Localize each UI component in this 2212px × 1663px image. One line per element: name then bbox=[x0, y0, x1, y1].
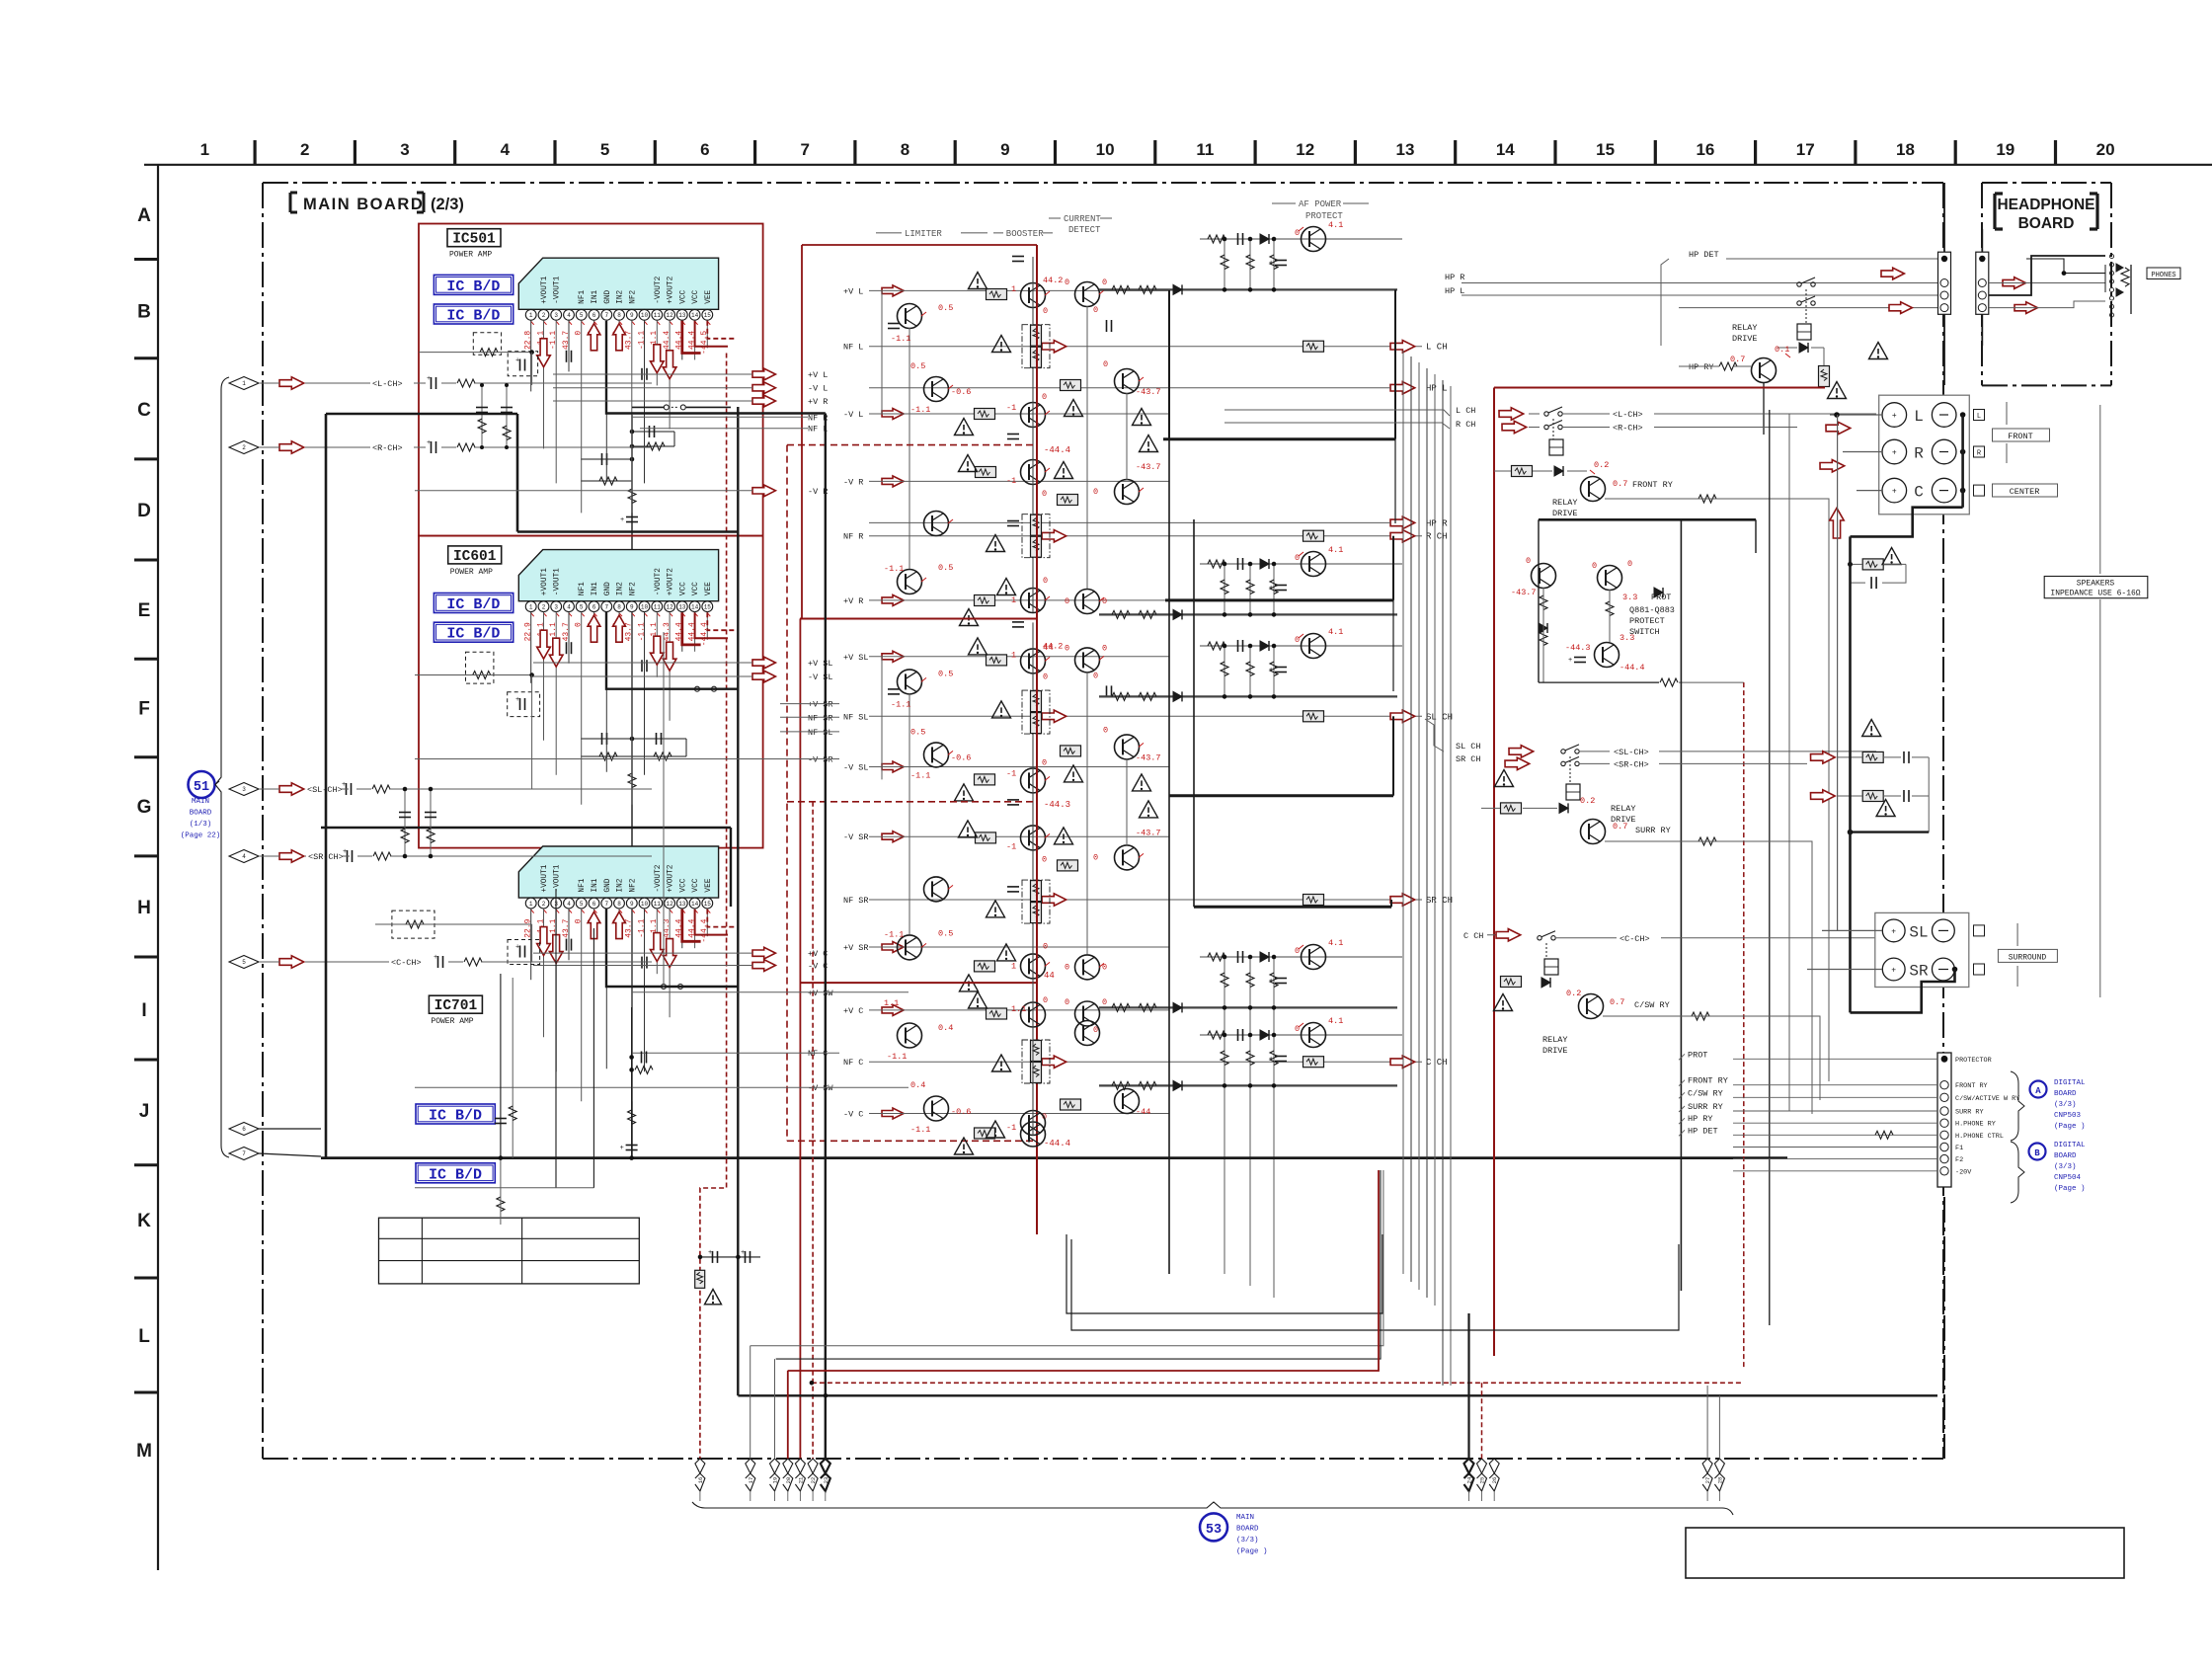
svg-text:IN2: IN2 bbox=[617, 582, 625, 595]
svg-text:7: 7 bbox=[800, 140, 809, 159]
svg-text:(3/3): (3/3) bbox=[2054, 1163, 2077, 1171]
svg-text:13: 13 bbox=[678, 603, 686, 610]
svg-text:F1: F1 bbox=[1955, 1145, 1963, 1152]
svg-text:13: 13 bbox=[678, 901, 686, 908]
svg-text:12: 12 bbox=[666, 603, 673, 610]
svg-text:+VOUT2: +VOUT2 bbox=[668, 864, 675, 892]
svg-text:J: J bbox=[139, 1101, 150, 1122]
svg-text:+: + bbox=[434, 954, 437, 962]
svg-text:L CH: L CH bbox=[1456, 406, 1475, 416]
svg-text:VCC: VCC bbox=[679, 878, 687, 892]
svg-text:<C-CH>: <C-CH> bbox=[391, 958, 422, 968]
svg-text:1: 1 bbox=[529, 312, 533, 319]
svg-text:0: 0 bbox=[1295, 228, 1300, 238]
svg-text:+VOUT2: +VOUT2 bbox=[668, 276, 675, 303]
svg-text:3.3: 3.3 bbox=[1622, 593, 1637, 602]
svg-text:-V SR: -V SR bbox=[843, 832, 869, 842]
svg-text:4: 4 bbox=[567, 901, 571, 908]
svg-text:4.1: 4.1 bbox=[1328, 220, 1343, 230]
svg-text:-V SW: -V SW bbox=[808, 1083, 833, 1093]
svg-text:INPEDANCE USE 6-16Ω: INPEDANCE USE 6-16Ω bbox=[2050, 590, 2140, 598]
svg-text:+: + bbox=[1269, 260, 1273, 268]
svg-text:+: + bbox=[708, 1249, 712, 1257]
svg-text:+: + bbox=[1269, 1056, 1273, 1064]
svg-text:0: 0 bbox=[1093, 305, 1098, 315]
svg-text:0.7: 0.7 bbox=[1730, 355, 1745, 364]
svg-text:+: + bbox=[1891, 927, 1896, 936]
svg-text:IN1: IN1 bbox=[592, 878, 599, 892]
svg-text:3: 3 bbox=[554, 312, 558, 319]
svg-text:+: + bbox=[1892, 449, 1897, 458]
svg-text:+V SL: +V SL bbox=[808, 659, 833, 669]
svg-text:PROTECTOR: PROTECTOR bbox=[1955, 1057, 1992, 1065]
svg-text:VCC: VCC bbox=[679, 289, 687, 303]
svg-text:44: 44 bbox=[1043, 643, 1054, 653]
svg-text:0: 0 bbox=[1065, 962, 1069, 972]
svg-text:+: + bbox=[1892, 412, 1897, 421]
svg-text:-44.4: -44.4 bbox=[1044, 445, 1070, 455]
svg-text:12: 12 bbox=[666, 312, 673, 319]
svg-text:SURR RY: SURR RY bbox=[1955, 1109, 1984, 1117]
svg-text:0: 0 bbox=[1103, 725, 1108, 735]
svg-text:+: + bbox=[1269, 978, 1273, 986]
svg-text:FRONT RY: FRONT RY bbox=[1632, 480, 1673, 490]
svg-text:FRONT: FRONT bbox=[2008, 432, 2033, 441]
svg-text:-1: -1 bbox=[1006, 768, 1016, 778]
svg-text:+: + bbox=[343, 848, 347, 856]
svg-text:17: 17 bbox=[1796, 140, 1815, 159]
svg-text:11: 11 bbox=[1196, 140, 1214, 159]
svg-text:DETECT: DETECT bbox=[1068, 225, 1101, 235]
svg-text:16: 16 bbox=[697, 1477, 704, 1484]
svg-text:0: 0 bbox=[1043, 941, 1048, 951]
svg-text:0.2: 0.2 bbox=[1594, 460, 1609, 470]
svg-text:(Page ): (Page ) bbox=[2054, 1185, 2086, 1193]
svg-text:GND: GND bbox=[604, 878, 612, 892]
svg-text:3: 3 bbox=[400, 140, 409, 159]
svg-text:3: 3 bbox=[242, 786, 246, 793]
svg-text:0: 0 bbox=[1295, 553, 1300, 563]
svg-text:PROT: PROT bbox=[1688, 1050, 1707, 1060]
svg-text:BOARD: BOARD bbox=[2054, 1090, 2077, 1098]
svg-text:I: I bbox=[141, 1000, 146, 1021]
svg-text:2: 2 bbox=[542, 901, 546, 908]
svg-text:-43.7: -43.7 bbox=[1136, 752, 1161, 762]
svg-text:0: 0 bbox=[1043, 995, 1048, 1005]
svg-text:FRONT RY: FRONT RY bbox=[1955, 1082, 1988, 1090]
svg-text:MAIN: MAIN bbox=[1236, 1514, 1254, 1522]
svg-text:21: 21 bbox=[797, 1476, 804, 1483]
svg-text:1: 1 bbox=[200, 140, 209, 159]
svg-text:22: 22 bbox=[810, 1477, 817, 1484]
svg-text:1: 1 bbox=[1011, 961, 1016, 971]
svg-text:<C-CH>: <C-CH> bbox=[1619, 934, 1650, 944]
svg-text:IC B/D: IC B/D bbox=[446, 308, 500, 325]
svg-text:4.1: 4.1 bbox=[1328, 545, 1343, 555]
svg-text:51: 51 bbox=[194, 780, 209, 795]
svg-text:4.1: 4.1 bbox=[1328, 627, 1343, 637]
svg-text:<R-CH>: <R-CH> bbox=[1613, 424, 1643, 434]
svg-text:DRIVE: DRIVE bbox=[1552, 509, 1578, 518]
svg-text:GND: GND bbox=[604, 582, 612, 595]
svg-text:B: B bbox=[137, 302, 151, 323]
svg-text:-V L: -V L bbox=[843, 410, 863, 420]
svg-text:-0.6: -0.6 bbox=[951, 1107, 971, 1117]
svg-text:9: 9 bbox=[1000, 140, 1009, 159]
svg-text:9: 9 bbox=[630, 312, 634, 319]
svg-text:0: 0 bbox=[1093, 852, 1098, 862]
svg-text:NF2: NF2 bbox=[629, 289, 637, 303]
svg-text:0: 0 bbox=[1526, 556, 1531, 566]
svg-text:0: 0 bbox=[1102, 997, 1107, 1007]
svg-text:MAIN BOARD: MAIN BOARD bbox=[303, 196, 424, 213]
svg-text:7: 7 bbox=[604, 312, 608, 319]
svg-text:0: 0 bbox=[1295, 1024, 1300, 1034]
svg-text:0.2: 0.2 bbox=[1566, 989, 1581, 998]
svg-text:-1: -1 bbox=[1006, 476, 1016, 486]
svg-text:+: + bbox=[1891, 967, 1896, 976]
svg-text:-VOUT1: -VOUT1 bbox=[554, 276, 562, 303]
svg-text:0: 0 bbox=[1065, 277, 1069, 287]
svg-text:FRONT RY: FRONT RY bbox=[1688, 1076, 1728, 1086]
svg-text:0: 0 bbox=[1592, 561, 1597, 571]
svg-text:11: 11 bbox=[654, 312, 662, 319]
svg-text:7: 7 bbox=[604, 603, 608, 610]
svg-text:(Page ): (Page ) bbox=[2054, 1123, 2086, 1131]
svg-text:-1.1: -1.1 bbox=[891, 334, 910, 344]
svg-text:+: + bbox=[1568, 657, 1572, 665]
svg-text:SPEAKERS: SPEAKERS bbox=[2077, 580, 2115, 589]
svg-text:23: 23 bbox=[823, 1477, 829, 1484]
svg-text:0: 0 bbox=[1042, 392, 1047, 402]
svg-text:HP DET: HP DET bbox=[1689, 250, 1719, 260]
svg-text:NF2: NF2 bbox=[629, 878, 637, 892]
svg-text:HP L: HP L bbox=[1426, 384, 1448, 394]
svg-text:IC B/D: IC B/D bbox=[446, 596, 500, 613]
svg-text:-1.1: -1.1 bbox=[910, 1125, 930, 1135]
svg-text:POWER AMP: POWER AMP bbox=[450, 568, 493, 577]
svg-text:F2: F2 bbox=[1955, 1156, 1963, 1164]
svg-text:8: 8 bbox=[901, 140, 909, 159]
svg-text:0.5: 0.5 bbox=[910, 727, 925, 737]
svg-text:4: 4 bbox=[242, 853, 246, 860]
svg-text:C/SW RY: C/SW RY bbox=[1634, 1000, 1670, 1010]
svg-text:1: 1 bbox=[1011, 284, 1016, 294]
svg-text:4.1: 4.1 bbox=[1328, 1016, 1343, 1026]
svg-text:0.4: 0.4 bbox=[938, 1023, 953, 1033]
svg-text:VCC: VCC bbox=[692, 582, 700, 595]
svg-text:24: 24 bbox=[1466, 1476, 1473, 1483]
svg-text:IN2: IN2 bbox=[617, 289, 625, 303]
svg-text:-1.1: -1.1 bbox=[884, 929, 904, 939]
svg-text:7: 7 bbox=[604, 901, 608, 908]
svg-text:F: F bbox=[138, 699, 150, 720]
svg-text:0.4: 0.4 bbox=[910, 1080, 925, 1090]
svg-text:+: + bbox=[515, 696, 519, 704]
svg-text:CENTER: CENTER bbox=[2010, 487, 2040, 497]
svg-text:SL CH: SL CH bbox=[1426, 712, 1453, 722]
svg-text:R CH: R CH bbox=[1426, 532, 1448, 542]
svg-text:IC B/D: IC B/D bbox=[429, 1108, 482, 1125]
svg-text:(1/3): (1/3) bbox=[190, 821, 212, 829]
svg-text:C/SW RY: C/SW RY bbox=[1688, 1088, 1723, 1098]
svg-text:5: 5 bbox=[242, 959, 246, 966]
svg-text:-VOUT2: -VOUT2 bbox=[655, 276, 663, 303]
svg-text:DRIVE: DRIVE bbox=[1542, 1046, 1568, 1056]
svg-text:2: 2 bbox=[242, 444, 246, 451]
svg-text:PHONES: PHONES bbox=[2151, 272, 2175, 279]
svg-text:L: L bbox=[1914, 408, 1924, 426]
svg-text:RELAY: RELAY bbox=[1611, 804, 1636, 814]
svg-text:10: 10 bbox=[641, 901, 649, 908]
svg-text:NF SL: NF SL bbox=[843, 712, 869, 722]
svg-text:DRIVE: DRIVE bbox=[1732, 334, 1758, 344]
svg-text:-1.1: -1.1 bbox=[887, 1052, 907, 1062]
svg-text:6: 6 bbox=[242, 1126, 246, 1133]
svg-text:VCC: VCC bbox=[692, 289, 700, 303]
svg-text:-1: -1 bbox=[1006, 403, 1016, 413]
svg-text:8: 8 bbox=[617, 603, 621, 610]
svg-text:0.1: 0.1 bbox=[1775, 345, 1789, 355]
svg-text:NF1: NF1 bbox=[579, 582, 587, 595]
svg-text:CNP503: CNP503 bbox=[2054, 1112, 2082, 1120]
svg-text:-V R: -V R bbox=[843, 477, 863, 487]
svg-text:CURRENT: CURRENT bbox=[1064, 214, 1101, 224]
svg-text:A: A bbox=[137, 205, 151, 226]
svg-text:DIGITAL: DIGITAL bbox=[2054, 1079, 2086, 1087]
svg-text:1: 1 bbox=[529, 901, 533, 908]
svg-text:1: 1 bbox=[242, 380, 246, 387]
svg-text:13: 13 bbox=[678, 312, 686, 319]
svg-text:6: 6 bbox=[700, 140, 709, 159]
svg-text:NF R: NF R bbox=[843, 532, 863, 542]
svg-text:0: 0 bbox=[1093, 487, 1098, 497]
svg-text:L: L bbox=[138, 1326, 150, 1347]
svg-text:G: G bbox=[137, 797, 152, 818]
svg-text:26: 26 bbox=[1491, 1477, 1498, 1484]
svg-text:0: 0 bbox=[1065, 997, 1069, 1007]
svg-text:2: 2 bbox=[300, 140, 309, 159]
svg-text:6: 6 bbox=[592, 312, 596, 319]
svg-text:<R-CH>: <R-CH> bbox=[372, 443, 403, 453]
svg-text:NF SR: NF SR bbox=[843, 896, 869, 906]
svg-text:C CH: C CH bbox=[1463, 931, 1483, 941]
svg-text:MAIN: MAIN bbox=[192, 798, 209, 806]
svg-text:2: 2 bbox=[542, 312, 546, 319]
svg-text:H.PHONE RY: H.PHONE RY bbox=[1955, 1121, 1996, 1129]
svg-text:+V SR: +V SR bbox=[843, 943, 869, 953]
svg-text:VEE: VEE bbox=[705, 582, 713, 595]
svg-text:<L-CH>: <L-CH> bbox=[372, 379, 403, 389]
svg-text:0: 0 bbox=[1295, 946, 1300, 956]
svg-text:11: 11 bbox=[654, 901, 662, 908]
svg-text:12: 12 bbox=[666, 901, 673, 908]
svg-text:H.PHONE CTRL: H.PHONE CTRL bbox=[1955, 1133, 2004, 1141]
svg-text:VEE: VEE bbox=[705, 878, 713, 892]
svg-text:+VOUT1: +VOUT1 bbox=[541, 276, 549, 303]
svg-text:IC601: IC601 bbox=[453, 549, 497, 565]
svg-text:RELAY: RELAY bbox=[1732, 323, 1758, 333]
svg-text:DRIVE: DRIVE bbox=[1611, 815, 1636, 825]
svg-text:0.5: 0.5 bbox=[938, 669, 953, 678]
svg-text:+: + bbox=[515, 944, 519, 952]
svg-text:+: + bbox=[620, 1145, 624, 1152]
svg-text:0: 0 bbox=[1065, 596, 1069, 606]
svg-text:0.7: 0.7 bbox=[1613, 479, 1627, 489]
svg-text:VCC: VCC bbox=[679, 582, 687, 595]
svg-text:0.2: 0.2 bbox=[1580, 796, 1595, 806]
svg-text:10: 10 bbox=[641, 603, 649, 610]
svg-text:15: 15 bbox=[1596, 140, 1615, 159]
svg-text:4: 4 bbox=[567, 312, 571, 319]
svg-text:+VOUT1: +VOUT1 bbox=[541, 568, 549, 595]
svg-text:44: 44 bbox=[1044, 971, 1055, 981]
svg-text:5: 5 bbox=[600, 140, 609, 159]
svg-text:NF2: NF2 bbox=[629, 582, 637, 595]
svg-text:NF L: NF L bbox=[843, 343, 863, 353]
svg-text:16: 16 bbox=[1696, 140, 1714, 159]
svg-text:BOARD: BOARD bbox=[2054, 1152, 2077, 1160]
svg-text:1: 1 bbox=[1011, 650, 1016, 660]
svg-text:0: 0 bbox=[1042, 854, 1047, 864]
svg-text:D: D bbox=[137, 501, 151, 521]
svg-text:-43.7: -43.7 bbox=[1136, 462, 1161, 472]
svg-text:-V SR: -V SR bbox=[808, 755, 833, 765]
svg-text:SURR RY: SURR RY bbox=[1688, 1102, 1723, 1112]
svg-text:NF1: NF1 bbox=[579, 878, 587, 892]
svg-text:-44: -44 bbox=[1136, 1107, 1150, 1117]
svg-text:19: 19 bbox=[1996, 140, 2014, 159]
svg-text:7: 7 bbox=[242, 1150, 246, 1157]
svg-text:GND: GND bbox=[604, 289, 612, 303]
svg-text:-44.3: -44.3 bbox=[1044, 800, 1070, 810]
svg-text:Q881-Q883: Q881-Q883 bbox=[1629, 605, 1675, 615]
svg-text:0: 0 bbox=[1042, 757, 1047, 767]
svg-text:13: 13 bbox=[1396, 140, 1415, 159]
svg-text:+V L: +V L bbox=[843, 286, 863, 296]
svg-text:2: 2 bbox=[542, 603, 546, 610]
svg-text:AF POWER: AF POWER bbox=[1299, 199, 1342, 209]
svg-text:6: 6 bbox=[592, 603, 596, 610]
svg-text:0: 0 bbox=[1627, 559, 1632, 569]
svg-text:-44.4: -44.4 bbox=[1619, 663, 1645, 673]
svg-text:1: 1 bbox=[1011, 595, 1016, 605]
svg-text:IC B/D: IC B/D bbox=[429, 1166, 482, 1183]
svg-text:+: + bbox=[427, 375, 431, 383]
svg-text:HP L: HP L bbox=[1445, 286, 1464, 296]
svg-text:8: 8 bbox=[617, 312, 621, 319]
svg-text:R CH: R CH bbox=[1456, 420, 1475, 430]
svg-text:3: 3 bbox=[554, 603, 558, 610]
svg-text:14: 14 bbox=[1496, 140, 1515, 159]
svg-text:-44.4: -44.4 bbox=[1044, 1139, 1070, 1148]
svg-text:5: 5 bbox=[580, 901, 584, 908]
svg-text:15: 15 bbox=[704, 312, 712, 319]
svg-text:K: K bbox=[137, 1211, 151, 1231]
svg-text:-43.7: -43.7 bbox=[1136, 828, 1161, 837]
svg-text:-V SL: -V SL bbox=[843, 763, 869, 773]
svg-text:27: 27 bbox=[1704, 1477, 1711, 1484]
svg-text:SURROUND: SURROUND bbox=[2009, 954, 2047, 963]
svg-text:-V C: -V C bbox=[843, 1110, 863, 1120]
svg-text:0: 0 bbox=[1295, 635, 1300, 645]
svg-text:+VOUT1: +VOUT1 bbox=[541, 864, 549, 892]
svg-text:B: B bbox=[2034, 1148, 2040, 1158]
svg-text:POWER AMP: POWER AMP bbox=[449, 251, 492, 260]
svg-text:NF C: NF C bbox=[843, 1058, 863, 1068]
svg-text:-1: -1 bbox=[1006, 841, 1016, 851]
svg-text:SR CH: SR CH bbox=[1456, 754, 1481, 764]
svg-text:NF SL: NF SL bbox=[808, 728, 833, 738]
svg-text:1.1: 1.1 bbox=[884, 998, 899, 1008]
svg-text:1.1: 1.1 bbox=[1011, 1004, 1026, 1014]
svg-text:+: + bbox=[1269, 585, 1273, 593]
svg-text:0: 0 bbox=[1042, 489, 1047, 499]
svg-text:+: + bbox=[427, 439, 431, 447]
svg-text:DIGITAL: DIGITAL bbox=[2054, 1142, 2086, 1149]
svg-text:-VOUT2: -VOUT2 bbox=[655, 568, 663, 595]
svg-text:10: 10 bbox=[1096, 140, 1115, 159]
svg-text:+V SL: +V SL bbox=[843, 653, 869, 663]
svg-text:-VOUT1: -VOUT1 bbox=[554, 864, 562, 892]
svg-text:15: 15 bbox=[704, 901, 712, 908]
svg-text:+V R: +V R bbox=[843, 596, 863, 606]
svg-text:0: 0 bbox=[1043, 576, 1048, 586]
svg-text:-V SL: -V SL bbox=[808, 673, 833, 682]
svg-text:C: C bbox=[137, 400, 151, 421]
svg-text:M: M bbox=[136, 1441, 152, 1462]
svg-text:44.2: 44.2 bbox=[1043, 276, 1063, 285]
svg-text:IC501: IC501 bbox=[452, 232, 496, 248]
svg-text:POWER AMP: POWER AMP bbox=[431, 1017, 473, 1026]
svg-text:+V R: +V R bbox=[808, 397, 828, 407]
svg-text:VEE: VEE bbox=[705, 289, 713, 303]
svg-text:0: 0 bbox=[1043, 672, 1048, 681]
svg-text:25: 25 bbox=[1479, 1477, 1486, 1484]
svg-text:CNP504: CNP504 bbox=[2054, 1174, 2082, 1182]
svg-text:-V L: -V L bbox=[808, 384, 828, 394]
svg-text:18: 18 bbox=[1896, 140, 1915, 159]
svg-text:4.1: 4.1 bbox=[1328, 938, 1343, 948]
svg-text:+: + bbox=[620, 516, 624, 524]
svg-text:0.5: 0.5 bbox=[938, 563, 953, 573]
svg-text:14: 14 bbox=[691, 901, 699, 908]
svg-text:0.5: 0.5 bbox=[910, 361, 925, 371]
svg-text:-43.7: -43.7 bbox=[1511, 588, 1537, 597]
svg-text:R: R bbox=[1914, 445, 1924, 463]
svg-text:+V L: +V L bbox=[808, 370, 828, 380]
svg-text:L CH: L CH bbox=[1426, 343, 1448, 353]
svg-text:20: 20 bbox=[2096, 140, 2115, 159]
svg-text:SWITCH: SWITCH bbox=[1629, 627, 1660, 637]
svg-text:-VOUT1: -VOUT1 bbox=[554, 568, 562, 595]
svg-text:HP DET: HP DET bbox=[1688, 1126, 1718, 1136]
svg-text:HEADPHONE: HEADPHONE bbox=[1997, 197, 2094, 213]
svg-text:SL CH: SL CH bbox=[1456, 742, 1481, 752]
svg-text:17: 17 bbox=[748, 1477, 754, 1484]
svg-text:0: 0 bbox=[1065, 643, 1069, 653]
svg-text:-1.1: -1.1 bbox=[891, 699, 910, 709]
svg-text:(3/3): (3/3) bbox=[1236, 1537, 1259, 1544]
svg-text:HP RY: HP RY bbox=[1688, 1114, 1713, 1124]
svg-text:9: 9 bbox=[630, 603, 634, 610]
svg-text:1: 1 bbox=[529, 603, 533, 610]
svg-text:0: 0 bbox=[1102, 643, 1107, 653]
svg-text:-VOUT2: -VOUT2 bbox=[655, 864, 663, 892]
svg-text:BOARD: BOARD bbox=[1236, 1526, 1259, 1534]
svg-text:A: A bbox=[2035, 1086, 2041, 1096]
svg-text:+V SW: +V SW bbox=[808, 989, 833, 998]
